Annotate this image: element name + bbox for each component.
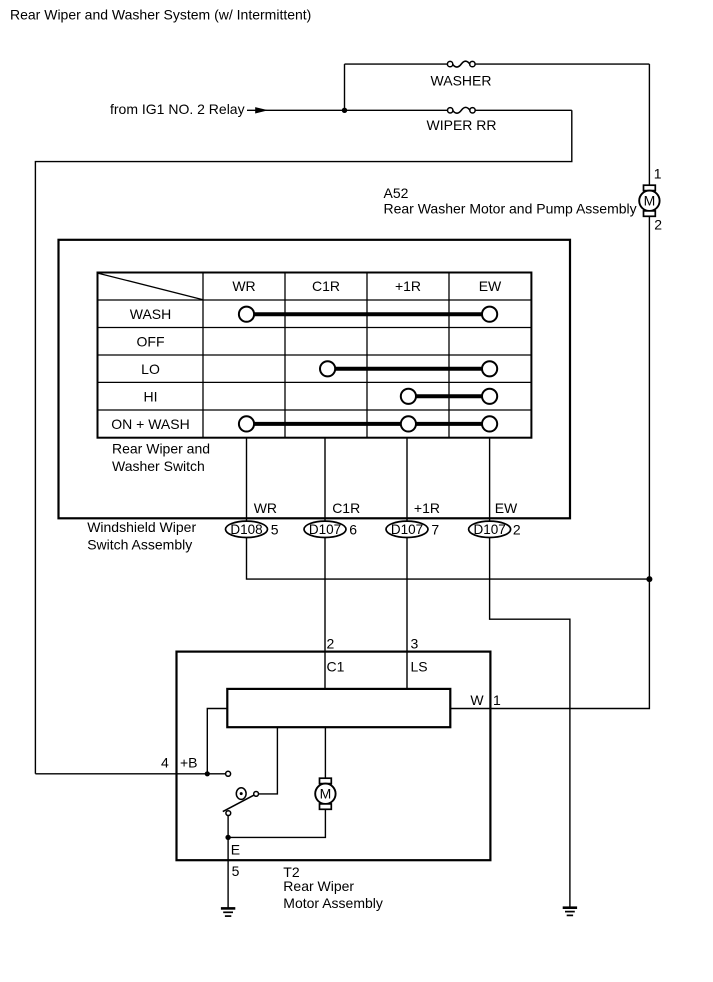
- label T2 Rear Wiper Motor Assembly: [283, 864, 383, 911]
- svg-text:Rear Wiper: Rear Wiper: [283, 878, 354, 894]
- park switch arm: [223, 792, 259, 816]
- contact bar WASH row: [239, 307, 497, 322]
- svg-text:5: 5: [271, 521, 279, 537]
- svg-text:E: E: [231, 842, 240, 858]
- svg-text:1: 1: [654, 166, 662, 182]
- wire WIPER RR down and left to +B feed: [35, 110, 571, 774]
- park switch cam: [236, 788, 246, 800]
- wire C1R from table to connector: [324, 438, 326, 521]
- svg-text:2: 2: [513, 521, 521, 537]
- wire WASHER feed horizontal: [345, 63, 650, 65]
- wire +B feed into T2: [35, 773, 225, 775]
- svg-text:OFF: OFF: [137, 333, 165, 349]
- wire +1R down to T2: [406, 538, 408, 689]
- label A52: [384, 185, 637, 216]
- svg-text:+B: +B: [180, 755, 198, 771]
- motor A52 pump: [639, 185, 659, 216]
- T2 Rear Wiper Motor Assembly box: [177, 652, 491, 861]
- svg-text:LS: LS: [411, 658, 428, 674]
- svg-text:Switch Assembly: Switch Assembly: [87, 536, 192, 552]
- wire washer feed down right side to motor A52: [648, 64, 650, 185]
- junction WR / motor bus: [646, 576, 652, 582]
- connector D108 pin 5: [226, 521, 279, 537]
- svg-text:WASHER: WASHER: [431, 73, 492, 89]
- wire park switch arm to E node and ground: [227, 816, 229, 908]
- svg-text:7: 7: [431, 521, 439, 537]
- svg-text:M: M: [320, 786, 332, 802]
- wire park switch to control unit: [259, 727, 278, 794]
- svg-text:HI: HI: [144, 388, 158, 404]
- svg-text:LO: LO: [141, 361, 160, 377]
- wire from WASHER line down to junction: [344, 64, 346, 110]
- svg-text:Washer Switch: Washer Switch: [112, 458, 205, 474]
- svg-text:4: 4: [161, 755, 169, 771]
- svg-text:3: 3: [411, 635, 419, 651]
- svg-text:WR: WR: [254, 500, 277, 516]
- svg-text:2: 2: [327, 635, 335, 651]
- contact bar LO row: [320, 361, 497, 376]
- fuse WASHER: [431, 61, 492, 89]
- svg-text:EW: EW: [495, 500, 518, 516]
- contact bar ON+WASH row: [239, 416, 497, 431]
- table row labels: [111, 306, 189, 432]
- Windshield Wiper Switch Assembly box: [59, 240, 571, 519]
- svg-text:Rear Wiper and: Rear Wiper and: [112, 440, 210, 456]
- svg-text:C1R: C1R: [312, 278, 340, 294]
- motor T2 wiper: [315, 778, 335, 809]
- svg-text:Windshield Wiper: Windshield Wiper: [87, 519, 196, 535]
- wire from IG1 NO.2 Relay with arrow: [110, 101, 345, 117]
- svg-text:ON + WASH: ON + WASH: [111, 416, 189, 432]
- wire right bus down to W pin: [450, 579, 649, 708]
- label Rear Wiper and Washer Switch: [112, 440, 210, 474]
- label Windshield Wiper Switch Assembly: [87, 519, 196, 553]
- svg-text:A52: A52: [384, 185, 409, 201]
- svg-text:WR: WR: [232, 278, 255, 294]
- svg-text:D108: D108: [230, 522, 262, 537]
- wire EW down and right to ground: [490, 538, 570, 908]
- svg-text:2: 2: [654, 217, 662, 233]
- wiper control unit block: [227, 689, 450, 727]
- wire WR to right bus: [247, 538, 650, 580]
- svg-text:+1R: +1R: [414, 500, 440, 516]
- wire C1R down to T2: [324, 538, 326, 689]
- svg-text:Motor Assembly: Motor Assembly: [283, 895, 383, 911]
- wire control unit to wiper motor: [324, 727, 326, 778]
- junction E node: [225, 835, 230, 840]
- table column headers: [232, 278, 502, 294]
- svg-text:1: 1: [493, 692, 501, 708]
- connector D107 pin 7: [386, 521, 439, 537]
- svg-text:Rear Wiper and Washer System (: Rear Wiper and Washer System (w/ Intermi…: [10, 7, 311, 23]
- svg-text:C1: C1: [327, 658, 345, 674]
- junction +B: [205, 771, 210, 776]
- park switch fixed contact: [226, 771, 231, 776]
- wire WR from table to connector: [246, 438, 248, 521]
- svg-text:WASH: WASH: [130, 306, 171, 322]
- svg-text:C1R: C1R: [332, 500, 360, 516]
- svg-text:5: 5: [232, 863, 240, 879]
- svg-text:Rear Washer Motor and Pump Ass: Rear Washer Motor and Pump Assembly: [384, 200, 637, 216]
- contact bar HI row: [401, 389, 497, 404]
- wire EW from table to connector: [489, 438, 491, 521]
- connector D107 pin 6: [304, 521, 357, 537]
- svg-text:D107: D107: [391, 522, 423, 537]
- svg-text:W: W: [470, 692, 484, 708]
- ground right (EW): [563, 908, 577, 916]
- svg-text:D107: D107: [309, 522, 341, 537]
- ground left (motor E): [221, 908, 235, 916]
- svg-text:M: M: [644, 193, 656, 209]
- svg-text:from IG1 NO. 2 Relay: from IG1 NO. 2 Relay: [110, 101, 245, 117]
- connector D107 pin 2: [469, 521, 521, 537]
- svg-text:EW: EW: [479, 278, 502, 294]
- wire +B branch to control unit: [207, 709, 227, 774]
- fuse WIPER RR: [427, 107, 497, 133]
- wire +1R from table to connector: [406, 438, 408, 521]
- svg-text:+1R: +1R: [395, 278, 421, 294]
- wire WIPER RR horizontal: [345, 109, 572, 111]
- switch table frame: [98, 273, 532, 438]
- wire wiper motor to E node: [228, 809, 325, 837]
- svg-text:WIPER RR: WIPER RR: [427, 117, 497, 133]
- table header diagonal: [98, 273, 202, 299]
- svg-text:D107: D107: [473, 522, 505, 537]
- svg-text:6: 6: [349, 521, 357, 537]
- wire motor A52 pin2 down to junction with WR: [648, 216, 650, 579]
- junction node at relay feed: [342, 108, 347, 113]
